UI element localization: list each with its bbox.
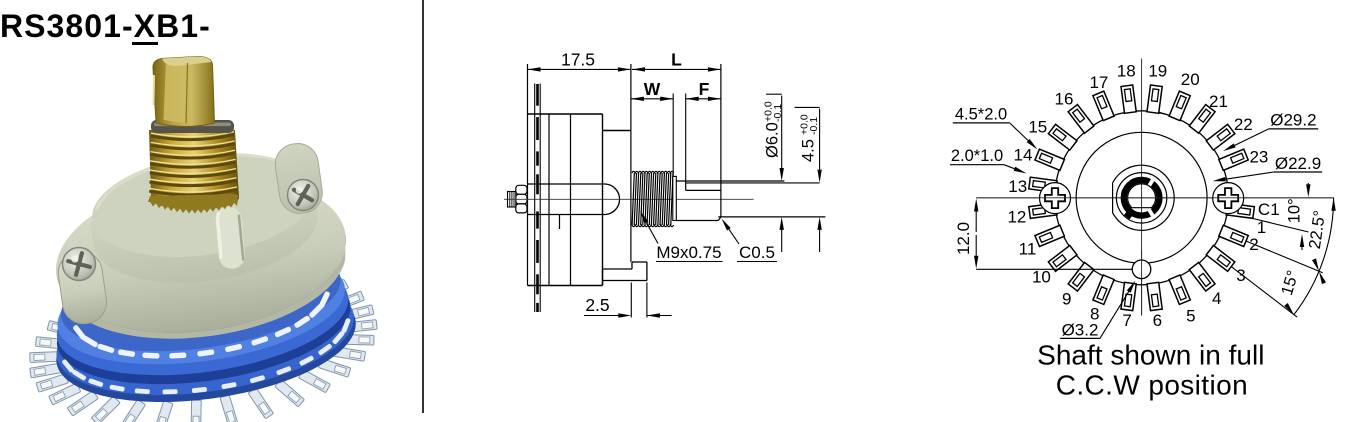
svg-text:L: L xyxy=(671,50,682,70)
svg-text:2: 2 xyxy=(1249,235,1258,254)
svg-text:17: 17 xyxy=(1089,73,1108,92)
svg-text:C.C.W position: C.C.W position xyxy=(1056,370,1248,401)
svg-text:2.0*1.0: 2.0*1.0 xyxy=(951,147,1003,165)
svg-text:6: 6 xyxy=(1153,311,1162,330)
svg-text:10: 10 xyxy=(1032,268,1051,287)
svg-text:4.5: 4.5 xyxy=(800,139,818,162)
svg-text:Shaft shown in full: Shaft shown in full xyxy=(1037,340,1264,371)
svg-text:C0.5: C0.5 xyxy=(739,243,775,262)
svg-text:W: W xyxy=(644,79,661,99)
svg-text:13: 13 xyxy=(1008,177,1027,196)
svg-text:M9x0.75: M9x0.75 xyxy=(656,243,721,262)
svg-text:18: 18 xyxy=(1117,62,1136,81)
svg-text:11: 11 xyxy=(1019,240,1037,259)
svg-text:F: F xyxy=(699,79,710,99)
svg-text:12: 12 xyxy=(1007,208,1026,227)
svg-text:Ø22.9: Ø22.9 xyxy=(1275,154,1321,173)
svg-text:22: 22 xyxy=(1234,115,1253,134)
svg-text:9: 9 xyxy=(1062,290,1071,309)
svg-text:7: 7 xyxy=(1122,311,1131,330)
svg-text:14: 14 xyxy=(1014,146,1033,165)
svg-text:15: 15 xyxy=(1028,118,1047,137)
svg-text:C1: C1 xyxy=(1258,200,1280,219)
svg-text:21: 21 xyxy=(1209,92,1228,111)
svg-text:16: 16 xyxy=(1055,90,1074,109)
svg-text:17.5: 17.5 xyxy=(561,50,595,70)
svg-text:20: 20 xyxy=(1181,70,1200,89)
svg-text:2.5: 2.5 xyxy=(585,295,609,315)
svg-text:10°: 10° xyxy=(1286,198,1304,223)
svg-text:15°: 15° xyxy=(1278,268,1303,297)
svg-text:-0.1: -0.1 xyxy=(772,104,784,122)
svg-text:23: 23 xyxy=(1249,148,1268,167)
svg-text:19: 19 xyxy=(1148,62,1167,81)
svg-text:Ø29.2: Ø29.2 xyxy=(1270,111,1316,130)
svg-text:4.5*2.0: 4.5*2.0 xyxy=(955,105,1007,123)
svg-text:12.0: 12.0 xyxy=(954,222,973,255)
svg-text:22.5°: 22.5° xyxy=(1306,209,1329,250)
svg-text:3: 3 xyxy=(1236,266,1245,285)
svg-text:5: 5 xyxy=(1186,307,1195,326)
svg-text:-0.1: -0.1 xyxy=(808,117,820,135)
svg-text:Ø6.0: Ø6.0 xyxy=(764,122,782,158)
svg-text:8: 8 xyxy=(1090,305,1099,324)
svg-text:4: 4 xyxy=(1212,289,1221,308)
